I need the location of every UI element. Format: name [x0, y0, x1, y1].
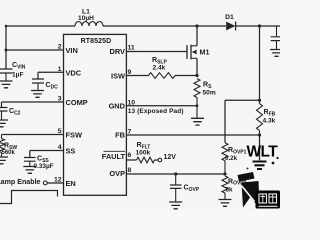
- ground (CC2): [0, 120, 8, 127]
- wire COMP to pin 3: [2, 101, 64, 103]
- capacitor CSS: [24, 156, 54, 170]
- wire M1 drain: [196, 26, 198, 46]
- resistor RSLP: [149, 57, 176, 78]
- junction node source/ISW: [195, 74, 198, 77]
- wire DRV to gate: [126, 51, 187, 53]
- pin 8 OVP: [109, 167, 131, 178]
- node 12V terminal: [158, 154, 176, 162]
- watermark logo box: [256, 191, 281, 209]
- wire GND pin to RS stem: [126, 105, 197, 107]
- capacitor COUT: [271, 26, 283, 49]
- pin 4 SS: [58, 144, 76, 156]
- pin 12 EN: [54, 176, 76, 188]
- ground (COVP): [169, 202, 182, 209]
- wire ISW to RSLP: [126, 75, 148, 77]
- wire bottom-left route: [0, 191, 58, 204]
- junction node SW (drain tap): [195, 24, 198, 27]
- wire FSW to pin 5: [2, 134, 64, 136]
- wire VIN top rail: [6, 25, 75, 27]
- node Lamp Enable terminal: [0, 178, 47, 186]
- junction node VIN: [5, 49, 8, 52]
- wire VDC cap stem: [37, 72, 39, 79]
- capacitor CDC: [32, 79, 58, 90]
- pin 1 VDC: [58, 66, 82, 78]
- wire EN to pin 12: [47, 182, 63, 184]
- wire RFLT to 12V terminal: [155, 159, 159, 161]
- wire OVP run: [126, 173, 225, 175]
- wire switch-node rail: [103, 25, 226, 27]
- wire SS cap stem: [29, 151, 31, 158]
- diode D1: [225, 14, 235, 30]
- resistor RFLT: [136, 142, 155, 163]
- pin 2 VIN: [58, 44, 78, 56]
- junction node COVP tap: [174, 172, 177, 175]
- ground (CSS): [23, 167, 36, 174]
- wire divider vertical: [224, 100, 226, 142]
- junction node OVP: [223, 172, 226, 175]
- resistor RS: [194, 79, 216, 119]
- junction node GND/RS: [196, 104, 199, 107]
- wire COMP cap stem: [1, 102, 3, 107]
- resistor ROVP1: [222, 143, 247, 174]
- resistor RFB: [257, 100, 276, 135]
- wire FB to RFB bottom: [126, 134, 259, 136]
- resistor RSW: [0, 135, 17, 157]
- capacitor CC2: [0, 108, 21, 120]
- wire D1 cathode to VOUT: [236, 25, 280, 27]
- inductor L1: [75, 8, 103, 26]
- wire VDC to pin 1: [38, 71, 64, 73]
- pin 5 FSW: [58, 128, 82, 140]
- ground (ROVP2): [219, 200, 232, 207]
- junction node FB: [258, 133, 261, 136]
- wire SS to pin 4: [30, 150, 64, 152]
- pin 10 GND: [109, 99, 136, 110]
- ground (COUT): [270, 50, 283, 57]
- resistor ROVP2: [222, 176, 247, 199]
- wire RSLP to source node: [175, 75, 197, 77]
- watermark bar: [238, 172, 255, 182]
- ground (RS): [191, 118, 204, 125]
- transistor M1: [187, 45, 210, 60]
- pin 11 DRV: [110, 45, 135, 57]
- node VIN corner: [5, 25, 8, 28]
- junction node VOUT: [258, 24, 261, 27]
- op-amp/controller U1 RT8525D box: [64, 34, 127, 195]
- watermark emblem: [242, 157, 279, 208]
- pin 6 FAULT: [102, 151, 132, 161]
- wire VIN input vertical: [5, 26, 7, 69]
- wire M1 source: [196, 58, 198, 75]
- ground (RSW): [0, 157, 8, 164]
- wire FAULT stub: [126, 159, 136, 161]
- wire FB node down: [259, 135, 261, 160]
- ground (FB node): [253, 162, 267, 170]
- pin 9 ISW: [111, 69, 131, 81]
- ground (CDC): [31, 91, 44, 98]
- wire VOUT to divider: [225, 99, 260, 101]
- pin 3 COMP: [58, 96, 88, 108]
- junction node VOUT/RFB: [258, 99, 261, 102]
- pin 7 FB: [115, 129, 131, 140]
- wire VOUT rail: [259, 26, 261, 100]
- ground (CVIN): [0, 81, 13, 88]
- wire VIN to pin 2: [6, 49, 64, 51]
- capacitor CVIN: [0, 62, 26, 81]
- capacitor COVP: [170, 174, 200, 202]
